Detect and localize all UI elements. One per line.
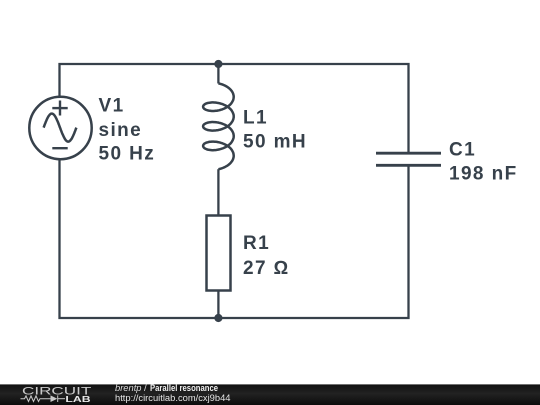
wire R1 to bottom node <box>217 291 219 319</box>
resistor R1 <box>207 216 231 291</box>
svg-text:27 Ω: 27 Ω <box>243 258 290 279</box>
svg-text:LAB: LAB <box>65 394 90 404</box>
svg-text:198 nF: 198 nF <box>449 164 518 185</box>
wire L1 to R1 <box>217 169 219 215</box>
svg-text:V1: V1 <box>99 96 125 117</box>
svg-text:R1: R1 <box>243 233 270 254</box>
svg-text:L1: L1 <box>243 108 268 129</box>
wire bottom net: V1- / R1 / C1 <box>60 159 409 318</box>
svg-text:50 mH: 50 mH <box>243 132 307 153</box>
junction node bottom <box>214 314 222 322</box>
voltage source V1 (sine, 50 Hz) <box>29 97 91 159</box>
junction node top <box>214 60 222 68</box>
wire top node to L1 <box>217 64 219 84</box>
capacitor C1 <box>376 153 441 165</box>
wire top net: V1+ / L1 / C1 <box>60 64 409 152</box>
svg-text:sine: sine <box>99 120 143 141</box>
inductor L1 <box>203 83 234 169</box>
svg-text:http://circuitlab.com/cxj9b44: http://circuitlab.com/cxj9b44 <box>115 393 231 404</box>
svg-text:C1: C1 <box>449 140 476 161</box>
svg-text:50 Hz: 50 Hz <box>99 144 156 165</box>
